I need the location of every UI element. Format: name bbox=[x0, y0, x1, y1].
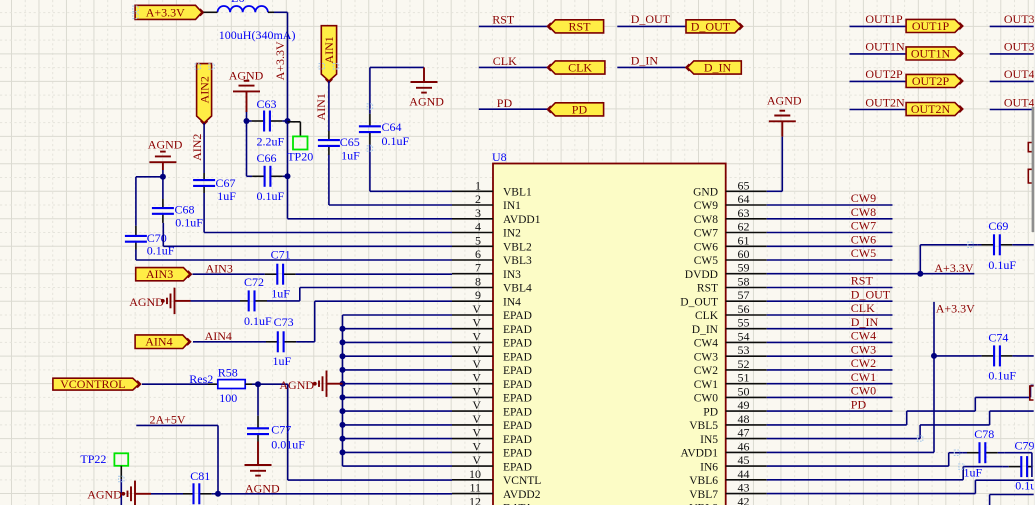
capacitor C74 bbox=[978, 345, 1017, 366]
svg-text:AIN3: AIN3 bbox=[146, 267, 173, 281]
test point TP22 bbox=[114, 453, 128, 466]
pin 62 CW7 (right row 4) bbox=[694, 220, 767, 240]
net label CW6 bbox=[851, 233, 876, 247]
wire pin1 VBL1 to C64 bbox=[370, 149, 452, 192]
wire C77 to ground bbox=[257, 442, 259, 466]
port OUT2N bbox=[906, 102, 963, 116]
svg-text:3: 3 bbox=[475, 206, 481, 220]
svg-text:60: 60 bbox=[738, 247, 750, 261]
wire AGND stem (pin65) bbox=[781, 121, 783, 136]
net label D_IN (top) bbox=[631, 53, 659, 67]
svg-text:11: 11 bbox=[469, 481, 481, 495]
svg-text:CW1: CW1 bbox=[851, 370, 876, 384]
port AIN2 bbox=[197, 64, 212, 125]
svg-text:C63: C63 bbox=[257, 97, 277, 111]
net label CW1 bbox=[851, 370, 876, 384]
svg-text:CW6: CW6 bbox=[694, 242, 719, 254]
svg-text:8: 8 bbox=[475, 275, 481, 289]
svg-text:V: V bbox=[472, 329, 481, 343]
pin 50 CW0 (right row 16) bbox=[694, 384, 767, 404]
wire RST bbox=[479, 25, 549, 27]
wire VBL5 staircase bbox=[767, 385, 1034, 425]
wire AGND stem down bbox=[162, 162, 164, 177]
net label OUT3N (right edge) bbox=[1004, 40, 1035, 54]
svg-text:5: 5 bbox=[475, 233, 481, 247]
svg-text:CW8: CW8 bbox=[851, 205, 876, 219]
net label CW4 bbox=[851, 329, 876, 343]
pin V EPAD (left row 18) bbox=[452, 412, 532, 432]
port D_OUT bbox=[686, 19, 743, 33]
wire VBL6 to C79 bbox=[767, 467, 1003, 480]
svg-text:10: 10 bbox=[469, 467, 481, 481]
pin V EPAD (left row 17) bbox=[452, 398, 532, 418]
wire OUT4N (right edge) bbox=[990, 109, 1034, 111]
svg-text:0.1uF: 0.1uF bbox=[382, 134, 410, 148]
svg-text:1uF: 1uF bbox=[273, 354, 292, 368]
svg-text:CW5: CW5 bbox=[694, 255, 719, 267]
pin V EPAD (left row 21) bbox=[452, 453, 532, 473]
svg-text:VBL3: VBL3 bbox=[503, 255, 532, 267]
port OUT1N bbox=[906, 46, 963, 60]
svg-text:AVDD2: AVDD2 bbox=[503, 489, 541, 501]
svg-text:EPAD: EPAD bbox=[503, 351, 532, 363]
svg-text:0.1uF: 0.1uF bbox=[988, 369, 1016, 383]
label C65 bbox=[340, 135, 360, 149]
capacitor C63 bbox=[247, 111, 288, 132]
svg-text:PD: PD bbox=[703, 406, 718, 418]
capacitor C68 bbox=[152, 199, 174, 223]
wire CW9 stub bbox=[767, 204, 893, 206]
svg-text:OUT4N: OUT4N bbox=[1004, 95, 1035, 109]
value 1uF (C78) bbox=[964, 465, 983, 479]
pin 9 IN4 (left row 9) bbox=[452, 288, 521, 308]
svg-text:PD: PD bbox=[572, 102, 588, 116]
port OUT2P bbox=[906, 74, 963, 88]
svg-text:AIN1: AIN1 bbox=[314, 93, 328, 120]
wire OUT2P bbox=[850, 80, 907, 82]
label R58 bbox=[218, 365, 238, 379]
svg-text:CW5: CW5 bbox=[851, 246, 876, 260]
port OUT1P bbox=[906, 19, 963, 33]
wire PD stub bbox=[767, 410, 893, 412]
wire C64 to AGND corner bbox=[370, 67, 424, 106]
ground AGND (C77) bbox=[245, 465, 272, 476]
svg-text:CW2: CW2 bbox=[694, 365, 719, 377]
svg-text:V: V bbox=[472, 371, 481, 385]
capacitor C78 bbox=[963, 442, 1005, 463]
svg-text:2A+5V: 2A+5V bbox=[150, 412, 186, 426]
wire pin42 route bbox=[990, 495, 1034, 505]
svg-text:EPAD: EPAD bbox=[503, 461, 532, 473]
pin 46 AVDD1 (right row 20) bbox=[681, 439, 767, 459]
svg-text:V: V bbox=[472, 412, 481, 426]
wire junction to C74 bbox=[934, 355, 978, 357]
net label OUT2N bbox=[865, 95, 905, 109]
svg-text:6: 6 bbox=[475, 247, 481, 261]
label C66 bbox=[257, 151, 277, 165]
net label D_OUT bbox=[851, 287, 891, 301]
value 2.2uF bbox=[257, 134, 285, 148]
svg-text:CLK: CLK bbox=[493, 54, 517, 68]
ground AGND (C68/C70) bbox=[149, 152, 176, 163]
svg-text:C65: C65 bbox=[340, 135, 360, 149]
svg-text:CW7: CW7 bbox=[694, 228, 719, 240]
label TP20 bbox=[287, 149, 313, 163]
wire CW8 stub bbox=[767, 218, 893, 220]
capacitor C77 bbox=[247, 413, 269, 442]
svg-text:V: V bbox=[472, 302, 481, 316]
pin 7 IN3 (left row 7) bbox=[452, 261, 521, 281]
svg-text:IN1: IN1 bbox=[503, 200, 521, 212]
svg-text:D_IN: D_IN bbox=[851, 315, 879, 329]
svg-text:4: 4 bbox=[475, 220, 481, 234]
net label CW2 bbox=[851, 356, 876, 370]
net label A+3.3V (DVDD) bbox=[934, 261, 973, 275]
wire C78 to right edge bbox=[1005, 453, 1032, 477]
svg-text:OUT3N: OUT3N bbox=[1004, 40, 1035, 54]
svg-text:V: V bbox=[472, 357, 481, 371]
wire C72 to pin 8 VBL4 bbox=[268, 288, 452, 301]
wire R58 to junction bbox=[245, 383, 258, 385]
pin 8 VBL4 (left row 8) bbox=[452, 275, 532, 295]
pin 10 VCNTL (left row 22) bbox=[452, 467, 541, 487]
wire C74 to right edge bbox=[1017, 355, 1034, 357]
svg-text:AVDD1: AVDD1 bbox=[681, 448, 719, 460]
wire CW0 stub bbox=[767, 396, 893, 398]
svg-text:Res2: Res2 bbox=[189, 372, 213, 386]
port AIN4 bbox=[135, 335, 191, 349]
value 0.1uF (C68) bbox=[175, 216, 203, 230]
svg-text:V: V bbox=[472, 426, 481, 440]
pin V EPAD (left row 12) bbox=[452, 329, 532, 349]
ground AGND (VBL1) bbox=[411, 67, 438, 92]
svg-text:D_OUT: D_OUT bbox=[631, 12, 671, 26]
label TP22 bbox=[80, 452, 106, 466]
label C77 bbox=[271, 423, 291, 437]
label AGND (EPAD) bbox=[279, 378, 314, 392]
svg-text:AIN4: AIN4 bbox=[205, 329, 232, 343]
svg-text:AIN4: AIN4 bbox=[145, 335, 172, 349]
label C69 bbox=[988, 219, 1008, 233]
svg-text:EPAD: EPAD bbox=[503, 379, 532, 391]
wire C68 to pin 5 VBL2 bbox=[163, 223, 452, 246]
wire RST stub bbox=[767, 287, 893, 289]
pin V EPAD (left row 16) bbox=[452, 384, 532, 404]
svg-text:C67: C67 bbox=[216, 176, 236, 190]
svg-text:CW4: CW4 bbox=[694, 338, 719, 350]
svg-text:AIN3: AIN3 bbox=[206, 261, 233, 275]
svg-text:EPAD: EPAD bbox=[503, 448, 532, 460]
net label D_IN bbox=[851, 315, 879, 329]
svg-text:CW7: CW7 bbox=[851, 219, 876, 233]
svg-text:64: 64 bbox=[738, 192, 750, 206]
svg-text:OUT1N: OUT1N bbox=[865, 40, 905, 54]
ground AGND (above C63) bbox=[233, 81, 260, 92]
wire pin 65 GND to AGND bbox=[767, 137, 783, 192]
pin 3 AVDD1 (left row 3) bbox=[452, 206, 541, 226]
svg-text:V: V bbox=[472, 343, 481, 357]
svg-text:CLK: CLK bbox=[695, 310, 719, 322]
wire junction to C68 bbox=[162, 177, 164, 199]
svg-text:A+3.3V: A+3.3V bbox=[146, 5, 185, 19]
wire A+3.3V vertical (AVDD1) bbox=[767, 302, 934, 453]
svg-text:CW4: CW4 bbox=[851, 329, 876, 343]
svg-text:C79: C79 bbox=[1015, 438, 1035, 452]
svg-text:EPAD: EPAD bbox=[503, 420, 532, 432]
svg-text:A+3.3V: A+3.3V bbox=[273, 41, 287, 80]
svg-text:VCONTROL: VCONTROL bbox=[60, 377, 125, 391]
port power A+3.3V bbox=[135, 5, 203, 19]
wire rail junction to C66 junction bbox=[287, 121, 289, 176]
wire junction to C70 rail bbox=[136, 177, 163, 226]
svg-text:OUT4P: OUT4P bbox=[1004, 67, 1035, 81]
svg-text:RST: RST bbox=[697, 283, 718, 295]
pin 45 IN6 (right row 21) bbox=[700, 453, 767, 473]
svg-text:EPAD: EPAD bbox=[503, 393, 532, 405]
value 1uF (C67) bbox=[217, 189, 236, 203]
svg-text:D_OUT: D_OUT bbox=[680, 296, 718, 308]
net label CW0 bbox=[851, 384, 876, 398]
svg-text:12: 12 bbox=[469, 494, 481, 505]
svg-text:A+3.3V: A+3.3V bbox=[934, 261, 973, 275]
ground AGND (C72) bbox=[161, 288, 191, 314]
wire junction up to C69 bbox=[920, 245, 977, 274]
svg-text:43: 43 bbox=[738, 481, 750, 495]
svg-text:CW0: CW0 bbox=[694, 393, 719, 405]
svg-text:IN4: IN4 bbox=[503, 296, 521, 308]
wire CW2 stub bbox=[767, 369, 893, 371]
capacitor C65 bbox=[318, 131, 340, 155]
junction EPAD bus dots bbox=[340, 326, 346, 456]
svg-text:VBL5: VBL5 bbox=[689, 420, 718, 432]
svg-text:VBL6: VBL6 bbox=[689, 475, 718, 487]
wire CW3 stub bbox=[767, 355, 893, 357]
capacitor C70 bbox=[125, 226, 147, 250]
net label A+3.3V (AVDD1) bbox=[936, 302, 975, 316]
svg-text:0.1uF: 0.1uF bbox=[244, 314, 272, 328]
label C71 bbox=[271, 248, 291, 262]
wire rail to pin 3 AVDD1 bbox=[288, 176, 453, 219]
capacitor C67 bbox=[193, 173, 215, 193]
svg-text:58: 58 bbox=[738, 275, 750, 289]
pin 64 CW9 (right row 2) bbox=[694, 192, 767, 212]
value 0.1uF (C66) bbox=[257, 189, 285, 203]
wire VBL7 to right edge bbox=[767, 480, 1034, 493]
svg-text:1: 1 bbox=[475, 178, 481, 192]
svg-text:C72: C72 bbox=[244, 275, 264, 289]
value 0.1uF (C64) bbox=[382, 134, 410, 148]
pin 53 CW3 (right row 13) bbox=[694, 343, 767, 363]
wire C65 to pin 2 IN1 bbox=[329, 155, 452, 205]
wire OUT2N bbox=[850, 109, 907, 111]
svg-text:1uF: 1uF bbox=[271, 287, 290, 301]
svg-text:9: 9 bbox=[475, 288, 481, 302]
svg-text:EPAD: EPAD bbox=[503, 406, 532, 418]
label C72 bbox=[244, 275, 264, 289]
pin 61 CW6 (right row 5) bbox=[694, 233, 767, 253]
net label PD bbox=[851, 397, 867, 411]
net label A+3.3V (vertical) bbox=[273, 41, 287, 80]
net label CW9 bbox=[851, 191, 876, 205]
label C78 bbox=[974, 427, 994, 441]
svg-text:VBL1: VBL1 bbox=[503, 187, 532, 199]
pin V EPAD (left row 20) bbox=[452, 439, 532, 459]
port VCONTROL bbox=[53, 377, 141, 391]
wire AIN1 to C65 bbox=[328, 81, 330, 131]
svg-text:CW1: CW1 bbox=[694, 379, 719, 391]
svg-text:63: 63 bbox=[738, 206, 750, 220]
net label 2A+5V bbox=[150, 412, 186, 426]
svg-text:100uH(340mA): 100uH(340mA) bbox=[219, 28, 296, 42]
wire AGND stem to C63 junction bbox=[246, 91, 248, 121]
svg-text:54: 54 bbox=[738, 329, 750, 343]
port (cut at right edge) bbox=[1028, 143, 1033, 152]
label AGND (C72) bbox=[129, 295, 164, 309]
label C63 bbox=[257, 97, 277, 111]
svg-text:61: 61 bbox=[738, 233, 750, 247]
label C79 bbox=[1015, 438, 1035, 452]
svg-text:CW2: CW2 bbox=[851, 356, 876, 370]
svg-text:AIN1: AIN1 bbox=[322, 36, 336, 63]
wire DVDD to junction bbox=[767, 273, 975, 275]
svg-text:GND: GND bbox=[693, 187, 718, 199]
svg-text:D_IN: D_IN bbox=[631, 53, 659, 67]
pin 58 RST (right row 8) bbox=[697, 275, 767, 295]
junction AGND/C63 bbox=[244, 118, 250, 124]
svg-text:2: 2 bbox=[475, 192, 481, 206]
svg-text:1uF: 1uF bbox=[341, 149, 360, 163]
port AIN3 bbox=[136, 267, 192, 281]
pin 65 GND (right row 1) bbox=[693, 178, 767, 198]
scrollbar track (right edge) bbox=[1034, 0, 1035, 505]
pin V EPAD (left row 14) bbox=[452, 357, 532, 377]
label C74 bbox=[988, 331, 1008, 345]
svg-text:V: V bbox=[472, 384, 481, 398]
label AGND (pin 65) bbox=[767, 94, 802, 108]
net label OUT1P bbox=[865, 12, 903, 26]
svg-text:0.1uF: 0.1uF bbox=[175, 216, 203, 230]
svg-text:D_IN: D_IN bbox=[692, 324, 719, 336]
label C67 bbox=[216, 176, 236, 190]
port D_IN bbox=[686, 61, 742, 75]
svg-text:CW9: CW9 bbox=[851, 191, 876, 205]
ground AGND (pin 65) bbox=[769, 111, 796, 122]
inductor L6 bbox=[204, 0, 275, 12]
pin 55 D_IN (right row 11) bbox=[692, 316, 767, 336]
svg-text:R58: R58 bbox=[218, 365, 238, 379]
net label PD (top) bbox=[497, 96, 513, 110]
label C68 bbox=[175, 203, 195, 217]
svg-text:C73: C73 bbox=[274, 315, 294, 329]
wire VCONTROL to R58 bbox=[142, 383, 218, 385]
svg-text:0.1uF: 0.1uF bbox=[257, 189, 285, 203]
capacitor C64 bbox=[359, 107, 381, 149]
svg-text:U8: U8 bbox=[492, 150, 507, 164]
svg-text:55: 55 bbox=[738, 316, 750, 330]
label AGND (C68/C70) bbox=[148, 137, 183, 151]
svg-text:AGND: AGND bbox=[148, 137, 183, 151]
pin V EPAD (left row 10) bbox=[452, 302, 532, 322]
net label CW7 bbox=[851, 219, 876, 233]
pin 6 VBL3 (left row 6) bbox=[452, 247, 532, 267]
wire EPAD bus bbox=[343, 315, 453, 466]
svg-text:OUT2P: OUT2P bbox=[912, 74, 950, 88]
value 1uF (C71) bbox=[271, 287, 290, 301]
junction C81/2A+5V bbox=[215, 491, 221, 497]
svg-text:2.2uF: 2.2uF bbox=[257, 134, 285, 148]
pin 43 VBL7 (right row 23) bbox=[689, 481, 766, 501]
svg-text:46: 46 bbox=[738, 439, 750, 453]
net label RST bbox=[851, 274, 874, 288]
pin 52 CW2 (right row 14) bbox=[694, 357, 767, 377]
wire C69 to right edge bbox=[1017, 244, 1034, 246]
net label AIN2 (vertical) bbox=[190, 134, 204, 161]
svg-text:59: 59 bbox=[738, 261, 750, 275]
svg-text:53: 53 bbox=[738, 343, 750, 357]
label AGND (C81) bbox=[87, 488, 122, 502]
wire C73 to pin 9 IN4 bbox=[297, 301, 452, 342]
svg-text:V: V bbox=[472, 316, 481, 330]
svg-text:57: 57 bbox=[738, 288, 750, 302]
svg-text:PD: PD bbox=[497, 96, 513, 110]
svg-text:OUT1N: OUT1N bbox=[911, 46, 951, 60]
svg-text:OUT3P: OUT3P bbox=[1004, 12, 1035, 26]
junction A+3.3V/C74 bbox=[931, 353, 937, 359]
svg-text:AGND: AGND bbox=[129, 295, 164, 309]
wire OUT3P (right edge) bbox=[990, 25, 1034, 27]
svg-text:C68: C68 bbox=[175, 203, 195, 217]
wire junction down to C77 bbox=[257, 384, 259, 413]
svg-text:RST: RST bbox=[492, 13, 515, 27]
capacitor C69 bbox=[977, 234, 1016, 255]
label C81 bbox=[190, 469, 210, 483]
svg-text:48: 48 bbox=[738, 412, 750, 426]
label AGND (VBL1) bbox=[409, 95, 444, 109]
compile marks bbox=[119, 6, 974, 482]
pin 54 CW4 (right row 12) bbox=[694, 329, 767, 349]
pin V EPAD (left row 13) bbox=[452, 343, 532, 363]
svg-text:RST: RST bbox=[851, 274, 874, 288]
wire OUT4P (right edge) bbox=[990, 80, 1034, 82]
capacitor C72 bbox=[240, 290, 268, 311]
wire D_IN stub bbox=[767, 328, 893, 330]
pin 51 CW1 (right row 15) bbox=[694, 371, 767, 391]
wire 2A+5V bbox=[136, 425, 218, 493]
wire AIN2 to C67 bbox=[203, 123, 205, 173]
wire A+3.3V to rail bbox=[274, 12, 288, 121]
svg-text:CW3: CW3 bbox=[694, 351, 719, 363]
svg-text:RST: RST bbox=[568, 19, 591, 33]
pin V EPAD (left row 11) bbox=[452, 316, 532, 336]
pin 59 DVDD (right row 7) bbox=[685, 261, 767, 281]
port AIN1 bbox=[321, 26, 336, 83]
wire to test point TP20 bbox=[288, 122, 301, 137]
wire junction to pin 11 AVDD2 bbox=[218, 493, 452, 495]
svg-text:C64: C64 bbox=[382, 120, 402, 134]
svg-text:AVDD1: AVDD1 bbox=[503, 214, 541, 226]
svg-text:CW9: CW9 bbox=[694, 200, 719, 212]
wire IN6 to C78 bbox=[767, 453, 963, 466]
net label AIN1 (vertical) bbox=[314, 93, 328, 120]
test point TP20 bbox=[293, 136, 308, 149]
svg-text:1uF: 1uF bbox=[217, 189, 236, 203]
svg-text:OUT2P: OUT2P bbox=[865, 67, 903, 81]
svg-text:VCNTL: VCNTL bbox=[503, 475, 541, 487]
port (cut at right edge, VBL5) bbox=[1030, 386, 1034, 400]
wire C67 to pin 4 IN2 bbox=[204, 193, 452, 233]
svg-text:AGND: AGND bbox=[87, 488, 122, 502]
resistor R58 bbox=[218, 380, 245, 389]
